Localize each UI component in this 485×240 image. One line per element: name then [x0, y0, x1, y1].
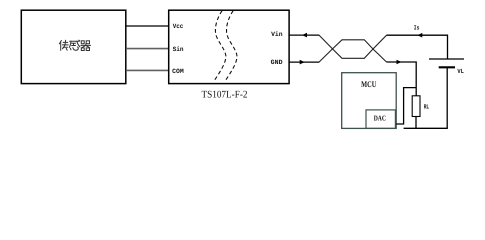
isolation amplifier box TS107L-F-2 — [169, 10, 289, 83]
svg-text:Sin: Sin — [173, 46, 184, 53]
resistor RL body — [412, 96, 420, 117]
twisted pair lens bottom — [333, 49, 374, 58]
arrowhead Is (left) — [417, 33, 422, 38]
isolation barrier dashed squiggle left — [214, 11, 226, 82]
MCU box — [342, 73, 397, 129]
twisted pair crossing right — [373, 35, 387, 62]
svg-text:COM: COM — [172, 68, 184, 75]
twisted pair crossing left — [319, 35, 333, 62]
arrowhead into Vin (left) — [302, 33, 307, 38]
wire DAC output to RL node — [396, 88, 416, 124]
DAC box — [366, 110, 395, 128]
wire GND return — [289, 61, 319, 63]
battery VL plate - — [439, 66, 455, 68]
wire COM (sensor to TS107) — [126, 69, 169, 71]
wire Vin output — [289, 34, 319, 36]
wire Is loop top — [387, 35, 448, 59]
svg-text:Vin: Vin — [271, 31, 283, 38]
wire Sin (sensor to TS107) — [126, 48, 169, 50]
svg-text:Is: Is — [414, 25, 420, 32]
wire bottom rail — [404, 127, 448, 129]
battery VL plate + — [429, 58, 464, 60]
svg-text:VL: VL — [457, 68, 464, 75]
twisted pair lens top — [333, 40, 374, 49]
label 传感器 drawn glyph 感 — [69, 40, 80, 50]
svg-text:TS107L-F-2: TS107L-F-2 — [202, 90, 248, 101]
label 传感器 drawn glyph 器 — [81, 41, 91, 51]
svg-text:RL: RL — [424, 104, 430, 111]
svg-text:Vcc: Vcc — [173, 23, 184, 30]
arrowhead loop bottom (right) — [397, 60, 402, 65]
arrowhead out of GND (right) — [300, 60, 305, 65]
svg-text:DAC: DAC — [374, 114, 386, 123]
wire Vcc (sensor to TS107) — [126, 25, 169, 27]
wire loop bottom (GND side to RL) — [387, 62, 417, 96]
sensor box (传感器) — [21, 10, 126, 83]
wire resistor bottom — [415, 117, 417, 129]
svg-text:MCU: MCU — [361, 79, 376, 89]
svg-text:GND: GND — [271, 59, 283, 66]
label 传感器 drawn glyph 传 — [59, 40, 68, 50]
wire battery negative down — [446, 67, 448, 128]
isolation barrier dashed squiggle right — [225, 11, 237, 82]
